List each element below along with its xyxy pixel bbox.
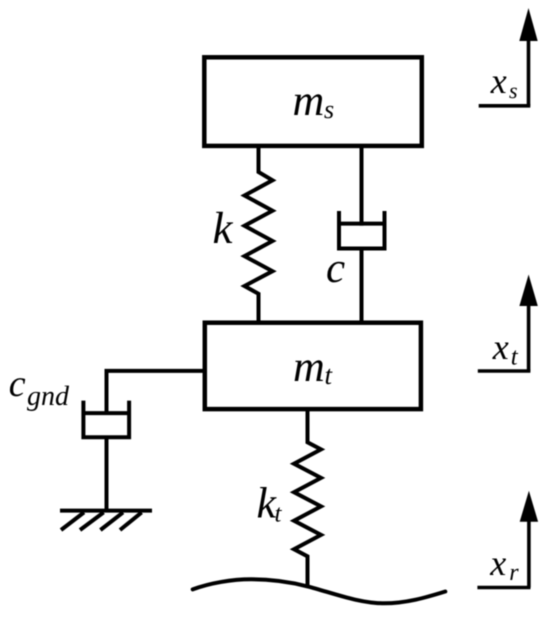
ground hatch 3 bbox=[100, 512, 123, 530]
svg-text:x: x bbox=[489, 543, 506, 583]
svg-text:c: c bbox=[326, 245, 345, 292]
svg-text:m: m bbox=[293, 342, 325, 391]
damper c rod lower bbox=[360, 249, 364, 323]
damper c_gnd piston plate bbox=[83, 411, 129, 415]
axis x_t horizontal line bbox=[478, 369, 531, 373]
ground hatch 1 bbox=[61, 512, 84, 530]
label x_t bbox=[492, 327, 519, 371]
damper c rod upper bbox=[360, 146, 364, 226]
axis x_s arrowhead bbox=[519, 8, 537, 41]
axis x_r vertical line bbox=[527, 519, 531, 588]
svg-text:m: m bbox=[293, 76, 325, 125]
label k_t bbox=[257, 479, 283, 528]
svg-text:s: s bbox=[509, 78, 518, 103]
label m_t bbox=[293, 342, 334, 391]
damper c cylinder cup bbox=[339, 211, 385, 249]
ground hatch 2 bbox=[80, 512, 104, 530]
svg-text:k: k bbox=[213, 203, 234, 253]
damper c_gnd cylinder cup bbox=[83, 401, 129, 438]
mass m_t box bbox=[205, 323, 421, 409]
axis x_r arrowhead bbox=[520, 491, 538, 522]
label c_gnd bbox=[9, 363, 70, 412]
road profile wave bbox=[193, 579, 446, 603]
axis x_r horizontal line bbox=[477, 586, 530, 590]
mass m_s box bbox=[204, 57, 421, 146]
damper c_gnd rod lower bbox=[105, 437, 109, 510]
spring k_t bbox=[294, 409, 321, 588]
label x_r bbox=[489, 543, 519, 586]
label x_s bbox=[490, 61, 518, 103]
axis x_t vertical line bbox=[527, 303, 531, 371]
spring k bbox=[245, 146, 273, 322]
axis x_s horizontal line bbox=[479, 104, 531, 108]
svg-text:r: r bbox=[509, 560, 519, 586]
svg-text:c: c bbox=[9, 363, 26, 405]
svg-text:x: x bbox=[492, 327, 509, 367]
svg-text:s: s bbox=[324, 95, 334, 124]
svg-text:t: t bbox=[511, 344, 519, 371]
label m_s bbox=[293, 76, 335, 125]
damper c piston plate bbox=[339, 222, 385, 226]
svg-text:t: t bbox=[275, 501, 283, 528]
svg-text:x: x bbox=[490, 61, 507, 101]
svg-text:gnd: gnd bbox=[27, 381, 70, 412]
axis x_s vertical line bbox=[527, 38, 531, 106]
ground hatch 4 bbox=[120, 512, 142, 530]
axis x_t arrowhead bbox=[519, 275, 537, 307]
ground line bbox=[60, 509, 152, 513]
wire link to c_gnd bbox=[107, 371, 206, 414]
